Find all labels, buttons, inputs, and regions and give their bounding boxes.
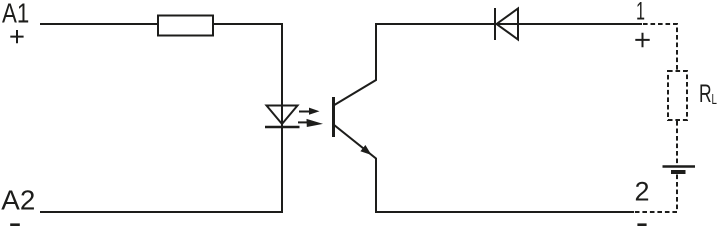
svg-text:A2: A2: [1, 184, 35, 215]
svg-text:1: 1: [636, 0, 645, 25]
svg-text:L: L: [712, 91, 717, 108]
svg-text:A1: A1: [2, 0, 29, 28]
svg-text:R: R: [699, 80, 712, 108]
svg-text:2: 2: [634, 176, 649, 206]
